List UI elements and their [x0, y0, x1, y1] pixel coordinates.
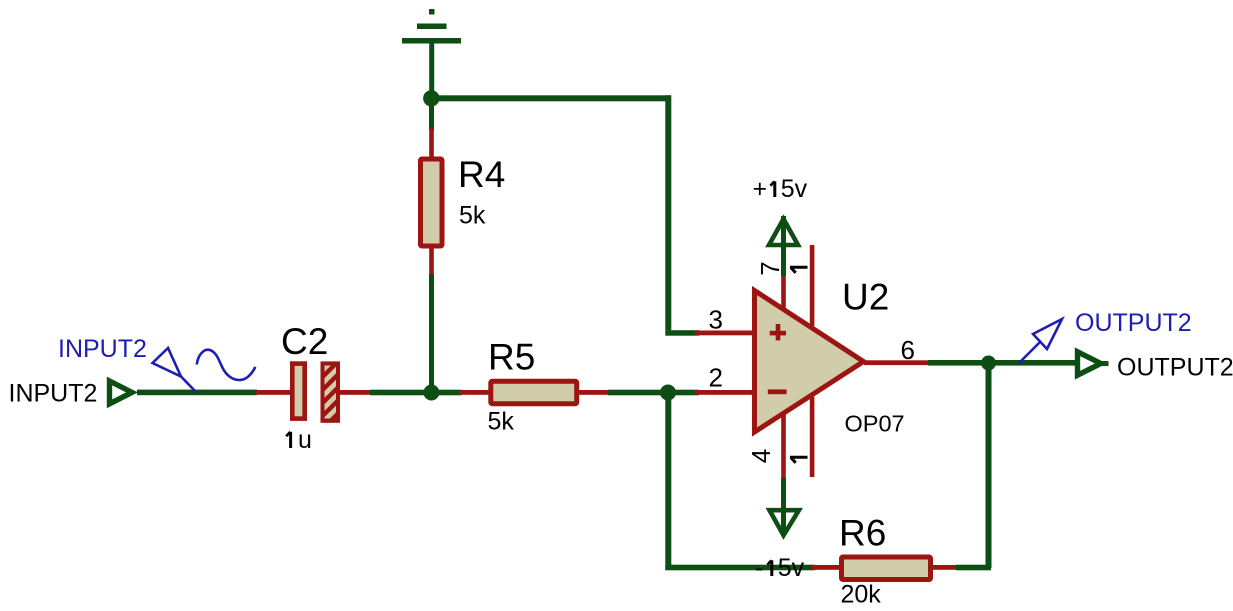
pin C2 right [339, 390, 372, 395]
pin R4 top [429, 128, 434, 158]
terminal OUTPUT2 [1078, 352, 1101, 375]
wire R5 to node C [608, 390, 699, 396]
svg-text:5v: 5v [778, 554, 805, 582]
svg-text:OUTPUT2: OUTPUT2 [1075, 309, 1192, 337]
wire right vertical to pin3 [665, 95, 671, 330]
minus marker [768, 389, 787, 394]
value 1u [286, 432, 290, 448]
capacitor C2 right plate (hatched) [316, 347, 346, 442]
svg-text:20k: 20k [841, 581, 882, 609]
svg-text:+: + [753, 175, 768, 203]
svg-text:2: 2 [709, 363, 723, 393]
wire stub to pin3 [665, 330, 699, 336]
pin op-amp 1 (top) [810, 245, 815, 326]
pin op-amp 6 [864, 360, 929, 365]
terminal INPUT2 [110, 381, 133, 404]
wire C2 to node B [370, 390, 462, 396]
op-amp U2 body [755, 291, 864, 433]
power -15v arrow [770, 510, 799, 535]
pin op-amp 1 (bottom) [810, 397, 815, 477]
svg-text:4: 4 [746, 449, 776, 463]
resistor R4 [421, 159, 443, 246]
wire input [137, 390, 257, 396]
svg-text:U2: U2 [842, 277, 889, 318]
plus marker [770, 331, 786, 336]
svg-text:-: - [755, 554, 763, 582]
label pin 1 bottom [790, 457, 808, 463]
pin op-amp 7 [781, 274, 786, 308]
svg-text:INPUT2: INPUT2 [9, 380, 98, 408]
pin R6 left [812, 565, 843, 570]
wire output vertical [986, 363, 992, 568]
svg-text:R5: R5 [488, 337, 535, 378]
wire feedback vertical [665, 392, 671, 570]
node A junction dot [423, 90, 439, 106]
svg-text:6: 6 [901, 335, 915, 365]
pin op-amp 2 [695, 390, 753, 395]
svg-text:OUTPUT2: OUTPUT2 [1117, 354, 1233, 382]
power -15v stem [781, 478, 786, 535]
node D junction dot [981, 356, 996, 371]
svg-text:C2: C2 [281, 321, 328, 362]
svg-text:R4: R4 [458, 154, 505, 195]
node C junction dot [660, 385, 676, 401]
wire R4 top [429, 98, 434, 130]
ground [402, 9, 461, 98]
pin R6 right [929, 565, 959, 570]
wire terminal tail [1102, 361, 1109, 366]
wire R6 right [956, 565, 991, 571]
svg-text:7: 7 [755, 261, 785, 275]
wire top row [429, 95, 671, 101]
capacitor C2 left plate [292, 364, 304, 419]
svg-text:u: u [298, 426, 312, 454]
wire feedback horizontal [665, 565, 815, 571]
wire R4 bottom [429, 274, 434, 393]
svg-text:5v: 5v [781, 175, 808, 203]
pin R4 bottom [429, 246, 434, 276]
probe INPUT2 (blue) [153, 348, 256, 393]
node B junction dot [423, 385, 439, 401]
svg-text:OP07: OP07 [845, 411, 905, 437]
svg-text:3: 3 [709, 305, 723, 335]
svg-text:R6: R6 [839, 513, 886, 554]
label pin 1 top [790, 267, 808, 273]
pin op-amp 3 [695, 331, 753, 336]
svg-text:5k: 5k [488, 408, 515, 436]
pin R5 right [577, 390, 608, 395]
pin op-amp 4 [781, 413, 786, 481]
resistor R5 [491, 381, 577, 404]
probe OUTPUT2 (blue) [1019, 319, 1063, 364]
wire output [928, 360, 1075, 366]
power +15v arrow [769, 219, 798, 245]
pin C2 left [256, 390, 292, 395]
svg-text:INPUT2: INPUT2 [58, 335, 147, 363]
power +15v stem [781, 216, 786, 276]
pin R5 left [459, 390, 490, 395]
resistor R6 [842, 557, 931, 580]
svg-text:5k: 5k [459, 202, 486, 230]
